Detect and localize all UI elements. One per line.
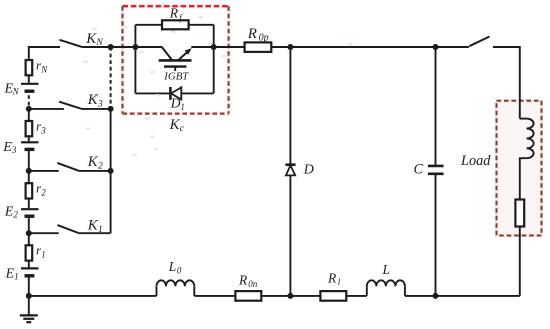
wire K1 left <box>29 232 59 234</box>
label KN <box>85 31 103 48</box>
svg-text:IGBT: IGBT <box>163 71 189 83</box>
wire E3 to K2 node <box>28 151 30 171</box>
resistor R0n <box>235 291 261 301</box>
resistor r1 <box>26 245 33 260</box>
label r2 <box>36 181 46 198</box>
svg-text:2: 2 <box>41 188 46 198</box>
label K2 <box>87 154 103 171</box>
wire C node to load switch <box>436 46 469 48</box>
svg-text:K: K <box>169 117 181 133</box>
svg-text:3: 3 <box>11 145 17 155</box>
transistor IGBT <box>159 47 192 71</box>
diode D1 <box>170 87 181 100</box>
wire r1 to E1 <box>28 261 30 268</box>
label Rf <box>169 6 184 23</box>
junction D top <box>287 44 293 50</box>
junction node K1 row left <box>26 230 32 236</box>
svg-text:E: E <box>4 204 14 219</box>
wire load resistor to bottom <box>519 227 521 296</box>
svg-text:3: 3 <box>97 100 103 110</box>
wire switch K2 right to bus <box>79 170 111 172</box>
label R0p <box>247 26 269 44</box>
switch K3 arm <box>59 102 81 109</box>
wire Rf branch right <box>189 24 214 26</box>
junction bus KN <box>108 44 114 50</box>
diode D vertical wire lower <box>289 175 291 296</box>
label EN <box>4 81 20 96</box>
capacitor C vertical wire upper <box>435 47 437 165</box>
bottom wire Rl to L <box>346 295 367 297</box>
svg-text:N: N <box>12 87 20 97</box>
wire E2 to K1 node <box>28 218 30 233</box>
svg-text:1: 1 <box>14 272 19 282</box>
svg-text:E: E <box>5 266 15 281</box>
resistor Rf <box>162 20 189 29</box>
diode D <box>285 165 295 176</box>
wire node to r3 <box>28 109 30 121</box>
wire K3 left <box>29 108 64 110</box>
battery E2 short plate <box>25 214 35 217</box>
svg-text:0n: 0n <box>248 279 258 289</box>
junction IGBT block left <box>132 44 138 50</box>
svg-text:R: R <box>247 26 257 42</box>
load inductor <box>520 119 534 200</box>
wire D1 branch right <box>181 92 213 94</box>
switch KN arm <box>60 40 82 47</box>
switch K1 arm <box>57 225 78 233</box>
svg-text:E: E <box>2 140 12 155</box>
label E2 <box>4 204 19 219</box>
svg-text:R: R <box>327 271 337 286</box>
dashed box Kc right edge <box>228 6 230 113</box>
wire r3 to E3 <box>28 136 30 141</box>
svg-text:3: 3 <box>40 125 46 135</box>
svg-text:K: K <box>87 218 99 234</box>
IGBT block left vertical <box>134 25 136 94</box>
capacitor C plates <box>428 166 444 174</box>
svg-text:K: K <box>87 154 99 170</box>
junction node K3 row left <box>26 106 32 112</box>
junction bus K3 <box>108 106 114 112</box>
wire R0p to D node <box>271 46 290 48</box>
diode D vertical wire upper <box>289 47 291 164</box>
junction D bottom <box>287 293 293 299</box>
svg-text:N: N <box>95 38 103 48</box>
svg-text:N: N <box>40 64 48 74</box>
label Rl <box>327 271 341 288</box>
junction C top <box>433 44 439 50</box>
svg-text:K: K <box>87 92 99 108</box>
wire E1 to ground node <box>28 278 30 296</box>
svg-text:0: 0 <box>177 266 182 276</box>
junction node K2 row left <box>26 168 32 174</box>
wire K2 left <box>29 170 59 172</box>
wire top to R0p <box>214 46 245 48</box>
ground <box>20 315 38 322</box>
bus K3 to K1 <box>110 109 112 233</box>
bottom wire ground to L0 <box>29 295 157 297</box>
svg-text:Load: Load <box>460 153 491 169</box>
label K3 <box>87 92 103 109</box>
switch K2 arm <box>57 163 78 171</box>
wire switch K3 right to bus <box>81 108 111 110</box>
bottom wire R0n to Rl <box>261 295 320 297</box>
battery E1 long plate <box>21 267 39 269</box>
IGBT block right vertical <box>213 25 215 94</box>
dashed box Kc left edge <box>121 6 123 113</box>
svg-text:2: 2 <box>13 210 18 220</box>
label Kc <box>169 117 185 134</box>
svg-text:0p: 0p <box>259 32 269 43</box>
battery E2 long plate <box>21 208 39 210</box>
battery EN long plate <box>21 83 39 85</box>
wire IGBT emitter side <box>191 46 213 48</box>
battery E3 short plate <box>25 148 35 151</box>
junction bus K2 <box>108 168 114 174</box>
svg-text:R: R <box>238 273 248 288</box>
resistor r3 <box>26 121 33 136</box>
resistor r2 <box>26 183 33 198</box>
dashed bus KN to K3 <box>110 47 112 109</box>
wire bus to IGBT block <box>111 46 136 48</box>
wire left chain top corner to switch KN <box>29 47 60 60</box>
wire switch KN right to bus <box>82 46 111 48</box>
inductor L0 <box>157 280 195 296</box>
svg-text:C: C <box>414 161 424 177</box>
label K1 <box>87 218 103 235</box>
label r3 <box>36 118 46 135</box>
capacitor C vertical wire lower <box>435 175 437 296</box>
resistor R0p <box>245 42 272 52</box>
battery E3 long plate <box>21 141 39 143</box>
resistor Rl <box>320 291 346 301</box>
dashed box Kc top edge <box>123 5 229 7</box>
svg-text:1: 1 <box>180 102 185 112</box>
compression artifact flecks <box>83 16 211 156</box>
svg-text:D: D <box>303 162 314 177</box>
bottom wire L to load corner <box>405 295 520 297</box>
wire D node to C node <box>290 46 435 48</box>
wire switch to load corner <box>493 47 520 119</box>
svg-text:D: D <box>170 96 181 111</box>
wire D1 branch left <box>135 92 170 94</box>
dashed box Kc (halo) <box>123 6 229 113</box>
wire rN to EN <box>28 75 30 83</box>
wire r2 to E2 <box>28 199 30 209</box>
svg-text:L: L <box>168 259 177 274</box>
svg-text:L: L <box>382 262 391 277</box>
wire switch K1 right to bus <box>79 232 111 234</box>
svg-text:R: R <box>169 6 179 21</box>
dashed box Kc bottom edge <box>123 112 229 114</box>
bottom wire L0 to R0n <box>194 295 235 297</box>
svg-text:1: 1 <box>98 225 103 235</box>
label rN <box>36 57 48 74</box>
wire node to r2 <box>28 171 30 183</box>
battery E1 short plate <box>25 274 35 277</box>
label E1 <box>5 266 19 281</box>
resistor rN <box>26 60 33 75</box>
wire IGBT collector side <box>135 46 162 48</box>
junction node bottom left <box>26 293 32 299</box>
svg-text:2: 2 <box>98 162 103 172</box>
battery EN short plate <box>25 89 35 92</box>
dashed box Load <box>497 101 542 236</box>
label r1 <box>36 243 46 260</box>
svg-text:1: 1 <box>41 250 46 260</box>
label E3 <box>2 140 17 155</box>
junction IGBT block right <box>211 44 217 50</box>
inductor L <box>367 280 405 296</box>
dashed continuation wire below EN <box>28 95 30 109</box>
label D1 <box>170 96 185 112</box>
label R0n <box>238 273 258 290</box>
wire node to r1 <box>28 233 30 245</box>
junction C bottom <box>433 293 439 299</box>
wire Rf branch left <box>135 24 162 26</box>
load resistor <box>515 200 524 227</box>
ground stub <box>28 296 30 316</box>
label L0 <box>168 259 182 276</box>
switch load arm <box>469 37 489 47</box>
